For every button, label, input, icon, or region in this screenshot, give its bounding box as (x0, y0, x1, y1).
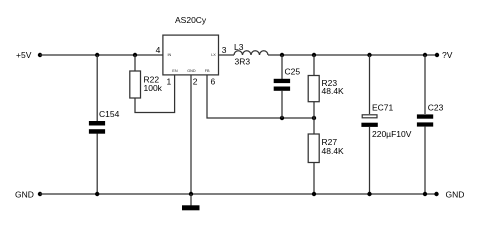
svg-text:LX: LX (211, 53, 216, 57)
junction R23 / output rail (312, 53, 316, 57)
junction R27 / ground rail (312, 192, 316, 196)
capacitor EC71 220uF10V (electrolytic) (361, 55, 411, 194)
junction pin2 / ground rail (189, 192, 193, 196)
resistor R22 (130, 55, 163, 98)
svg-text:C23: C23 (428, 102, 444, 112)
svg-text:GND: GND (187, 69, 196, 73)
node GND right (434, 190, 464, 200)
junction C23 / ground rail (423, 192, 427, 196)
junction C23 / output rail (423, 53, 427, 57)
svg-text:IN: IN (168, 53, 172, 57)
wire pin2 GND to ground rail (190, 75, 192, 194)
IC U1 AS20Cy (163, 15, 219, 75)
capacitor C154 (89, 109, 120, 134)
svg-text:FB: FB (205, 69, 210, 73)
wire pin6 FB net (207, 75, 314, 118)
junction C25 / FB net (280, 116, 284, 120)
wire C154 bottom (96, 134, 98, 195)
capacitor C25 (274, 55, 301, 118)
ground symbol (182, 194, 200, 210)
junction C25 / output rail (280, 53, 284, 57)
svg-text:100k: 100k (144, 83, 163, 93)
svg-text:48.4K: 48.4K (322, 146, 345, 156)
svg-text:EN: EN (172, 69, 178, 73)
svg-text:48.4K: 48.4K (322, 86, 345, 96)
svg-text:4: 4 (156, 45, 161, 55)
junction C154 / ground rail (95, 192, 99, 196)
wire ground rail (40, 193, 437, 195)
svg-text:220µF10V: 220µF10V (372, 129, 412, 139)
svg-text:3: 3 (222, 45, 227, 55)
junction EC71 / output rail (367, 53, 371, 57)
wire R22 to pin1 EN (135, 75, 175, 113)
junction EC71 / ground rail (367, 192, 371, 196)
junction C154 / +5V rail (95, 53, 99, 57)
junction R23-R27 / FB net (312, 116, 316, 120)
node GND left (15, 190, 42, 200)
wire output rail (268, 54, 437, 56)
node +5V (16, 50, 42, 60)
svg-text:GND: GND (446, 190, 465, 200)
svg-text:C25: C25 (285, 67, 301, 77)
wire +5V rail (40, 54, 163, 56)
svg-text:?V: ?V (442, 50, 453, 60)
svg-text:6: 6 (211, 77, 216, 87)
svg-text:+5V: +5V (16, 50, 32, 60)
junction R22 / +5V rail (133, 53, 137, 57)
svg-text:C154: C154 (99, 109, 120, 119)
svg-text:AS20Cy: AS20Cy (175, 15, 207, 25)
svg-text:EC71: EC71 (372, 103, 394, 113)
svg-text:3R3: 3R3 (235, 57, 251, 67)
svg-text:2: 2 (193, 77, 198, 87)
resistor R27 (308, 118, 344, 194)
resistor R23 (308, 55, 344, 118)
inductor L3 3R3 (234, 42, 268, 67)
svg-text:GND: GND (15, 190, 34, 200)
wire pin3 LX to inductor (219, 54, 234, 56)
wire C154 top (96, 55, 98, 121)
svg-text:1: 1 (167, 77, 172, 87)
capacitor C23 (417, 55, 444, 194)
node ?V (435, 50, 453, 60)
